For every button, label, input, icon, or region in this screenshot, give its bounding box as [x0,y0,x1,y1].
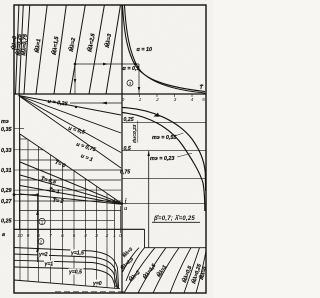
svg-text:0,5: 0,5 [124,146,131,152]
svg-text:α = 0,1: α = 0,1 [123,66,140,72]
svg-text:T̄= 2: T̄= 2 [52,197,63,205]
svg-text:4: 4 [191,97,194,103]
svg-text:γ=2: γ=2 [39,252,48,258]
svg-text:3: 3 [129,81,132,86]
svg-text:0,29: 0,29 [1,188,12,194]
svg-text:0,25: 0,25 [1,219,12,225]
svg-text:2: 2 [155,97,159,103]
svg-text:0,33: 0,33 [1,148,12,154]
svg-text:γ=0: γ=0 [93,281,102,287]
svg-text:γ=0,5: γ=0,5 [69,270,82,276]
svg-text:0,27: 0,27 [1,199,12,205]
svg-text:u: u [124,206,127,212]
svg-text:γ=1,5: γ=1,5 [71,251,84,257]
svg-text:0,25: 0,25 [124,117,134,123]
svg-text:γ=1: γ=1 [45,262,54,268]
svg-text:a: a [2,232,5,238]
svg-text:3: 3 [174,97,177,103]
svg-text:1: 1 [41,220,44,225]
svg-text:5: 5 [202,97,205,103]
svg-text:0: 0 [119,233,122,239]
svg-text:0,75: 0,75 [120,170,130,176]
svg-text:0,31: 0,31 [1,168,12,174]
svg-text:m̂э=0,23: m̂э=0,23 [132,124,137,143]
svg-text:0: 0 [122,97,125,103]
svg-text:α = 10: α = 10 [137,47,152,53]
svg-text:β̂=0,7; λ̂=0,25: β̂=0,7; λ̂=0,25 [153,216,195,222]
svg-text:2: 2 [105,233,109,239]
svg-text:mэ: mэ [1,119,9,125]
svg-text:mэ = 0,55: mэ = 0,55 [152,135,177,141]
svg-text:0,35: 0,35 [1,127,12,133]
svg-text:mэ = 0,23: mэ = 0,23 [150,156,174,162]
svg-text:1: 1 [139,97,142,103]
